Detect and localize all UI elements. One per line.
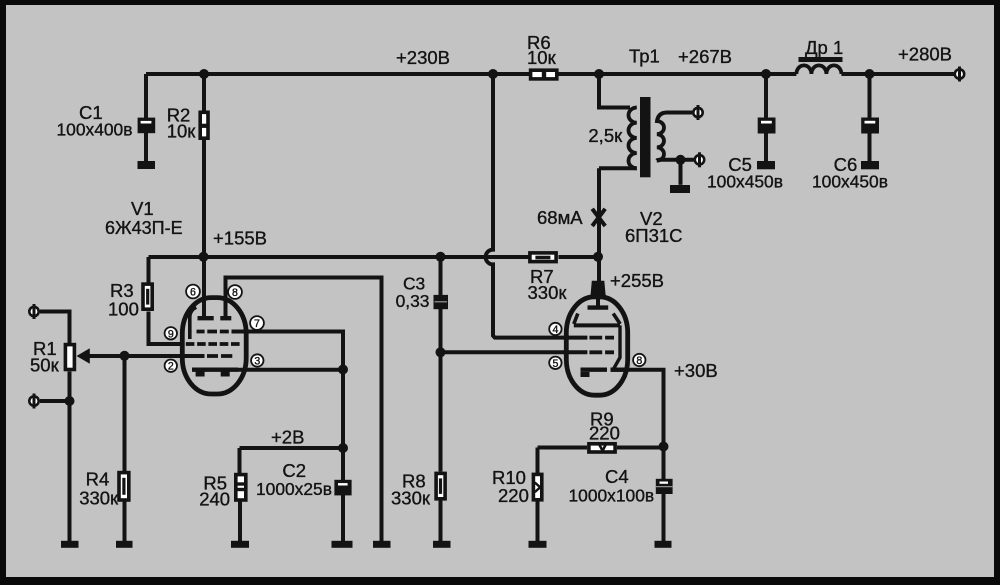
svg-text:100x400в: 100x400в bbox=[57, 119, 133, 139]
svg-text:2,5к: 2,5к bbox=[588, 125, 623, 146]
svg-text:50к: 50к bbox=[30, 355, 60, 376]
svg-text:V1: V1 bbox=[131, 198, 154, 219]
svg-text:68мА: 68мА bbox=[537, 207, 583, 228]
svg-text:+2В: +2В bbox=[271, 427, 304, 448]
svg-text:1000x100в: 1000x100в bbox=[569, 486, 655, 506]
svg-text:9: 9 bbox=[168, 328, 174, 340]
svg-text:Тр1: Тр1 bbox=[629, 46, 660, 67]
svg-text:+280В: +280В bbox=[898, 43, 952, 64]
svg-text:7: 7 bbox=[254, 318, 260, 330]
svg-text:10к: 10к bbox=[167, 120, 197, 141]
svg-text:+155В: +155В bbox=[213, 228, 267, 249]
svg-text:8: 8 bbox=[636, 355, 642, 367]
svg-text:220: 220 bbox=[498, 485, 529, 506]
svg-text:240: 240 bbox=[199, 489, 230, 510]
svg-text:Др 1: Др 1 bbox=[805, 37, 843, 58]
svg-text:330к: 330к bbox=[391, 488, 431, 509]
svg-text:220: 220 bbox=[589, 423, 620, 444]
svg-text:330к: 330к bbox=[79, 487, 119, 508]
svg-text:2: 2 bbox=[168, 361, 174, 373]
svg-text:100x450в: 100x450в bbox=[707, 172, 783, 192]
svg-text:+30В: +30В bbox=[674, 360, 718, 381]
svg-text:5: 5 bbox=[552, 358, 558, 370]
svg-text:100: 100 bbox=[108, 299, 139, 320]
svg-text:+255В: +255В bbox=[610, 270, 664, 291]
svg-text:6П31С: 6П31С bbox=[625, 225, 683, 246]
svg-text:+267В: +267В bbox=[678, 46, 732, 67]
svg-text:6Ж43П-Е: 6Ж43П-Е bbox=[105, 218, 183, 238]
svg-text:100x450в: 100x450в bbox=[812, 172, 888, 192]
svg-text:1000x25в: 1000x25в bbox=[256, 479, 332, 499]
svg-text:+230В: +230В bbox=[396, 47, 450, 68]
svg-text:0,33: 0,33 bbox=[396, 291, 430, 311]
svg-text:3: 3 bbox=[254, 356, 260, 368]
svg-text:6: 6 bbox=[190, 287, 196, 299]
svg-text:8: 8 bbox=[232, 287, 238, 299]
svg-text:C4: C4 bbox=[605, 466, 629, 487]
svg-text:4: 4 bbox=[552, 324, 558, 336]
svg-text:330к: 330к bbox=[528, 282, 568, 303]
svg-text:10к: 10к bbox=[527, 47, 557, 68]
